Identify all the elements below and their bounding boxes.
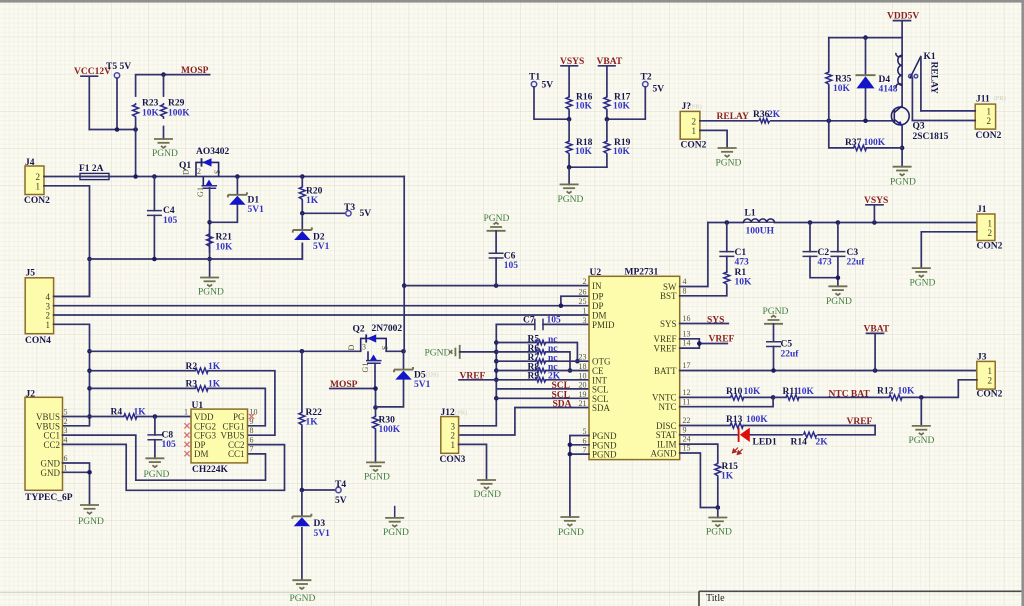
resistor R36 [700,110,894,123]
svg-text:CON3: CON3 [440,455,466,465]
resistor R37 [829,121,902,151]
transistor Q3 2SC1815 [891,106,948,142]
svg-text:CON2: CON2 [681,141,707,151]
svg-text:1K: 1K [721,472,734,482]
net label VREF (R9) [459,371,496,381]
svg-text:5V: 5V [360,209,372,219]
svg-text:3: 3 [362,343,366,352]
svg-text:10K: 10K [833,84,851,94]
svg-text:10K: 10K [744,387,762,397]
wire Q3 emitter to PGND [900,126,905,167]
ground PGND (R29) [152,139,178,159]
net label SCL 2 [552,390,570,400]
diode D2 [293,213,330,259]
connector J5 [25,269,54,347]
svg-text:F1 2A: F1 2A [79,164,104,174]
resistor R20 [299,177,322,214]
svg-text:11: 11 [683,397,691,406]
resistor R35 [826,38,852,121]
svg-text:5V1: 5V1 [248,205,265,215]
svg-text:1: 1 [361,363,370,367]
svg-text:22uf: 22uf [847,258,866,268]
svg-text:PGND: PGND [383,528,409,538]
svg-text:R20: R20 [306,187,323,197]
svg-text:PGND: PGND [716,159,742,169]
svg-text:VREF: VREF [653,343,676,353]
ground PGND (C8) [144,458,170,480]
power port VBAT (BATT) [864,325,890,371]
resistor R5 [496,335,579,364]
capacitor C8 [147,417,176,459]
svg-text:IN: IN [592,281,602,291]
svg-text:10K: 10K [575,102,593,112]
diode D1 [210,177,265,223]
wire J2 GND pins [63,463,92,505]
net label VREF (R13) [847,417,873,427]
wire J5 pin4 to rail2 [54,259,90,296]
svg-text:4148: 4148 [879,85,898,95]
svg-text:105: 105 [504,261,519,271]
wire U2 PGND pins to ground [568,436,589,518]
wire BATT row [680,368,977,373]
svg-text:105: 105 [163,216,178,226]
net label MOSP (Q2 gate) [330,380,358,390]
svg-text:1: 1 [64,463,68,472]
svg-text:R23: R23 [142,99,159,109]
svg-text:PGND: PGND [706,528,732,538]
ground PGND (R15) [706,508,732,538]
svg-text:CH224K: CH224K [192,465,229,475]
svg-text:10K: 10K [735,278,753,288]
resistor R16 [566,93,593,120]
wire CC1 wrap [63,435,266,480]
wire J7 pin1 to PGND [700,130,727,148]
svg-text:10K: 10K [613,147,631,157]
svg-text:4: 4 [64,435,68,444]
capacitor C2 [803,223,838,278]
wire J12 pin1 to DGND [459,444,487,480]
svg-text:CON2: CON2 [976,131,1002,141]
wire J4 pin1 down [44,186,92,297]
svg-text:SDA: SDA [592,403,611,413]
svg-text:PGND: PGND [290,594,316,604]
resistor R4 [63,408,192,420]
ground PGND (C3) [826,286,852,307]
svg-text:C5: C5 [781,340,793,350]
svg-text:12: 12 [683,388,691,397]
svg-text:21: 21 [579,399,587,408]
transistor Q2 2N7002 [347,324,402,373]
inductor L1 [743,209,774,237]
resistor R21 [207,230,233,253]
svg-text:AGND: AGND [651,448,677,458]
svg-text:100UH: 100UH [746,227,775,237]
svg-text:2: 2 [36,172,41,182]
net label SDA [553,400,572,410]
resistor R19 [604,138,631,167]
wire long vertical (rail to IN row, D5 column) [402,177,407,352]
wire J11 pin1 [921,110,975,112]
relay K1 coil [896,38,902,106]
power port VBAT (T2 block) [597,57,623,96]
svg-text:22: 22 [683,416,691,425]
svg-text:1: 1 [583,307,587,316]
svg-text:AO3402: AO3402 [196,147,230,157]
resistor R2 [90,362,275,435]
svg-text:24: 24 [683,435,691,444]
wire relay top rail [829,35,902,40]
ground PGND (R30) [364,462,390,482]
svg-text:(DS): (DS) [426,372,439,379]
svg-text:J11: J11 [976,95,990,105]
svg-text:NTC: NTC [659,402,677,412]
svg-text:Title: Title [706,593,725,604]
test point T5 [106,62,131,130]
svg-text:100K: 100K [379,425,401,435]
svg-text:TYPEC_6P: TYPEC_6P [25,493,73,503]
svg-text:(PR): (PR) [690,104,702,111]
connector J1 [977,205,1003,252]
svg-text:14: 14 [683,339,691,348]
diode D4 4148 [856,38,898,124]
svg-text:S: S [380,346,389,350]
svg-text:5V1: 5V1 [313,242,330,252]
svg-text:25: 25 [579,297,587,306]
wire SCL row 2 [496,397,589,399]
wire DP long (J5 pin3 to U2) [54,296,589,308]
wire CC2 wrap [63,444,285,490]
svg-text:2: 2 [64,417,68,426]
svg-text:8: 8 [683,286,687,295]
svg-text:PMID: PMID [592,320,615,330]
resistor R9 [496,372,589,382]
svg-text:100K: 100K [864,138,886,148]
ground PGND (J7) [716,148,742,169]
wire R18/R19 bottoms [567,165,607,170]
svg-text:1: 1 [987,106,992,116]
svg-text:R22: R22 [306,408,323,418]
svg-text:PGND: PGND [826,297,852,307]
resistor R1 [680,268,752,296]
ground DGND [474,480,502,500]
diode D3 [292,490,330,580]
svg-text:1: 1 [46,320,51,330]
svg-text:2K: 2K [816,438,829,448]
wire SCL row 1 [496,388,589,390]
ground PGND (J1) [910,268,936,288]
svg-text:R12: R12 [877,387,894,397]
svg-text:Q2: Q2 [353,325,365,335]
svg-text:VREF: VREF [709,335,735,345]
connector J11 [975,95,1001,142]
svg-text:T4: T4 [335,480,346,490]
resistor R8 [496,362,589,372]
svg-text:PGND: PGND [592,450,617,460]
svg-text:C3: C3 [847,248,859,258]
svg-text:100K: 100K [746,415,768,425]
svg-text:8: 8 [250,426,254,435]
svg-text:CC2: CC2 [43,440,60,450]
svg-text:3: 3 [64,426,68,435]
capacitor C5 [766,324,799,371]
resistor R6 [496,344,572,373]
ground PGND (U2) [558,517,584,538]
svg-text:RELAY: RELAY [929,62,939,95]
svg-text:R29: R29 [168,99,185,109]
svg-text:CON4: CON4 [25,336,51,346]
resistor R30 [373,408,401,463]
svg-text:CON2: CON2 [977,242,1003,252]
svg-text:2: 2 [692,116,697,126]
wire SDA row [459,408,589,436]
svg-text:G: G [361,367,370,373]
svg-text:D: D [347,345,356,351]
svg-text:LED1: LED1 [753,438,778,448]
window border right [1021,0,1024,606]
resistor R13 [680,415,875,428]
capacitor C1 [719,223,749,273]
IC U1 CH224K [184,401,258,475]
svg-text:10K: 10K [898,387,916,397]
svg-text:1: 1 [988,219,993,229]
svg-text:5: 5 [64,408,68,417]
net label RELAY [717,112,750,122]
svg-text:5V1: 5V1 [314,529,331,539]
wire VCC12V to R23 column [89,127,138,132]
ground PGND (J2) [78,505,104,527]
wire Q2 gate / MOSP [330,363,378,410]
svg-text:T3: T3 [344,203,355,213]
title block [0,591,1021,606]
svg-text:PGND: PGND [890,178,916,188]
svg-text:PGND: PGND [909,436,935,446]
ground PGND (D3) [290,580,316,604]
wire VSYS rail [708,220,977,225]
connector J4 [24,158,50,206]
transistor Q1 AO3402 [179,147,230,197]
relay K1 switch [909,52,939,121]
svg-text:C4: C4 [163,206,175,216]
svg-text:SDA: SDA [553,400,572,410]
capacitor C6 [489,231,519,286]
wire Q1 gate down [207,188,212,261]
wire SW to VSYS rail [680,223,708,287]
wire J5 pin1 down column [54,324,92,426]
ground PGND (Q3) [890,167,916,188]
svg-text:PGND: PGND [425,349,451,359]
svg-text:R15: R15 [722,462,739,472]
resistor R12 [877,380,977,400]
wire DM long (J5 pin2 to U2) [54,314,589,316]
svg-text:5V: 5V [653,85,665,95]
svg-text:16: 16 [683,314,691,323]
net label MOSP [181,66,209,76]
svg-text:PGND: PGND [364,473,390,483]
IC U2 MP2731 [579,268,691,460]
svg-text:22uf: 22uf [781,350,800,360]
resistor R7 [496,353,589,363]
wire main rail (top) [44,174,404,179]
ground PGND (R12) [909,397,935,446]
ground PGND (C6, inverted) [484,214,510,231]
power port VDD5V [887,12,919,38]
wire VREF vertical column [459,324,499,425]
svg-text:NTC BAT: NTC BAT [829,390,871,400]
svg-text:1K: 1K [306,418,319,428]
net label NTC BAT [829,390,871,400]
svg-text:13: 13 [683,329,691,338]
svg-text:PGND: PGND [763,307,789,317]
capacitor C4 [147,177,178,260]
svg-text:Q3: Q3 [913,122,925,132]
svg-text:C1: C1 [735,248,747,258]
svg-text:473: 473 [818,258,833,268]
power port VSYS (T1 block) [560,57,584,96]
svg-text:1: 1 [184,408,188,417]
resistor R29 [161,75,191,139]
svg-text:1: 1 [36,182,41,192]
svg-text:DM: DM [194,449,209,459]
svg-text:10K: 10K [797,387,815,397]
test point T2 [607,73,664,120]
no-ERC crosses U1 [184,414,254,456]
svg-text:20: 20 [579,380,587,389]
connector J12 [440,408,466,465]
net label SYS [680,316,729,326]
connector J7 [680,102,706,151]
resistor R3 [90,380,266,426]
svg-text:S: S [213,170,222,174]
svg-text:CON2: CON2 [24,196,50,206]
svg-text:26: 26 [579,288,587,297]
svg-text:D: D [182,169,191,175]
svg-text:L1: L1 [745,209,756,219]
wire NTC row [680,397,773,406]
svg-text:10K: 10K [613,102,631,112]
wire MOSP top [136,72,210,176]
svg-text:3: 3 [583,316,587,325]
connector J2 TYPEC_6P [25,390,73,504]
svg-text:SYS: SYS [660,319,677,329]
svg-text:PGND: PGND [198,288,224,298]
wire U2 VREF pins [680,339,728,348]
svg-text:7: 7 [250,445,254,454]
svg-text:2: 2 [988,376,993,386]
svg-text:473: 473 [735,258,750,268]
svg-text:2SC1815: 2SC1815 [913,132,949,142]
svg-text:9: 9 [683,425,687,434]
svg-text:BST: BST [660,291,677,301]
test point T1 [529,73,569,120]
svg-text:19: 19 [579,390,587,399]
svg-text:2K: 2K [768,110,781,120]
svg-text:R1: R1 [735,268,747,278]
svg-text:5V: 5V [542,81,554,91]
svg-text:T5 5V: T5 5V [106,62,131,72]
wire T1/T2 junction rows [567,117,609,140]
svg-text:10K: 10K [142,109,160,119]
svg-text:GND: GND [41,468,61,478]
svg-text:2N7002: 2N7002 [372,324,403,334]
ground PGND (C5, inverted) [763,307,789,324]
svg-text:PGND: PGND [910,279,936,289]
resistor R18 [566,138,593,167]
net label VREF (U2) [709,335,735,345]
svg-text:DP: DP [592,292,604,302]
power port VSYS (rail) [864,196,888,223]
wire IN row [404,283,589,288]
svg-text:2: 2 [197,167,201,176]
svg-text:2: 2 [988,228,993,238]
svg-text:PGND: PGND [558,195,584,205]
svg-text:R14: R14 [791,438,808,448]
svg-text:5V: 5V [335,496,347,506]
window border top [0,0,1024,3]
svg-text:1: 1 [988,366,993,376]
LED LED1 [680,426,875,455]
wire lower rail [90,244,303,262]
test point T4 [300,480,347,506]
svg-text:K1: K1 [924,52,936,62]
svg-text:10K: 10K [575,147,593,157]
svg-text:C8: C8 [162,431,174,441]
resistor R14 [791,432,829,447]
resistor R22 [299,351,322,490]
svg-text:G: G [196,191,205,197]
wire J11 pin2 [912,120,975,122]
ghost marks [426,95,1006,417]
svg-text:(PR): (PR) [994,95,1006,102]
svg-text:PGND: PGND [558,528,584,538]
svg-text:PGND: PGND [144,470,170,480]
svg-text:R35: R35 [835,75,852,85]
svg-text:4: 4 [683,277,687,286]
capacitor C7 [496,316,589,331]
wire AGND row [680,453,720,510]
svg-text:D3: D3 [314,519,326,529]
capacitor C3 [830,223,865,287]
net label SCL [552,381,570,391]
svg-text:PGND: PGND [78,517,104,527]
svg-text:10K: 10K [216,243,234,253]
svg-text:DGND: DGND [474,490,502,500]
test point T3 [300,203,371,219]
svg-text:C2: C2 [818,248,830,258]
ground PGND (floating) [383,506,409,538]
wire ILIM to R15 [680,444,718,462]
resistor R23 [133,99,160,127]
svg-text:1: 1 [692,126,697,136]
svg-text:BATT: BATT [654,366,677,376]
resistor R10 [680,387,776,400]
svg-text:18: 18 [579,362,587,371]
svg-text:17: 17 [683,361,691,370]
svg-text:R30: R30 [379,416,396,426]
ground PGND sideways (R6 net) [425,345,497,359]
resistor R17 [604,93,631,120]
svg-text:100K: 100K [168,109,190,119]
svg-text:2: 2 [583,277,587,286]
svg-text:1: 1 [451,440,456,450]
wire row MOSP-gate (to Q2/R22) [90,349,406,354]
svg-text:D5: D5 [414,371,426,381]
fuse F1 2A [78,164,111,180]
ground PGND (R18) [558,167,584,205]
svg-text:VREF: VREF [847,417,873,427]
wire J1 pin2 to PGND [921,232,977,268]
svg-text:PGND: PGND [152,149,178,159]
svg-text:CON2: CON2 [977,390,1003,400]
